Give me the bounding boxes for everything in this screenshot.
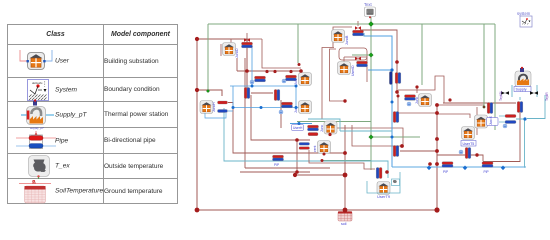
wire maroon U2 loop: [339, 48, 367, 60]
user cluster U2: [332, 26, 364, 45]
user cluster US1: [405, 94, 432, 107]
user cluster U8: [299, 141, 375, 170]
user cluster U4: [282, 73, 311, 86]
svg-text:JuX: JuX: [294, 78, 298, 85]
T_ex mini box: [392, 179, 400, 186]
label UserH: [292, 125, 304, 131]
vertical pipe x375: [376, 168, 382, 179]
wire maroon top branch: [197, 39, 247, 88]
wire maroon US1 box: [398, 76, 444, 113]
wire cyan S2 loop: [512, 85, 537, 100]
user cluster U1: [223, 38, 253, 58]
wire maroon y106 y117 to right: [437, 105, 484, 135]
wire maroon y172-175: [240, 140, 345, 175]
wire maroon U2 box: [333, 21, 358, 47]
svg-text:PIP: PIP: [274, 163, 279, 167]
wire maroon right loop: [483, 113, 520, 162]
vertical pipes center: [244, 88, 250, 99]
wire maroon center h: [251, 95, 310, 140]
svg-text:UserT5: UserT5: [463, 142, 475, 146]
wire green x371: [370, 17, 372, 170]
supply station S2: [499, 67, 549, 113]
pipe row center: [250, 76, 265, 84]
user cluster U10: [475, 115, 517, 129]
user cluster U6: [338, 57, 368, 76]
wire green x298: [297, 24, 299, 63]
wire blue pump loop: [228, 47, 305, 111]
wire green x484 x495: [484, 24, 495, 130]
wire cyan right down: [527, 95, 545, 119]
svg-text:JuncX: JuncX: [489, 115, 493, 125]
legend table: [7, 24, 178, 204]
user cluster U9: [459, 127, 479, 159]
svg-text:UserID: UserID: [351, 65, 355, 76]
wire maroon branch to U3: [197, 90, 222, 96]
wire blue y167: [392, 166, 526, 168]
pipe bottom left: [273, 155, 284, 167]
wire green y160 stub: [322, 160, 371, 162]
wire cyan y131: [340, 130, 392, 132]
wire maroon y168: [245, 167, 330, 169]
junction dots blue: [232, 68, 527, 170]
svg-text:soil: soil: [341, 222, 347, 226]
wire maroon to vpipes top right: [360, 30, 397, 92]
svg-text:JuncH: JuncH: [212, 102, 216, 112]
svg-text:TeplSL: TeplSL: [499, 91, 503, 101]
svg-text:UserH: UserH: [293, 126, 303, 130]
soil temperature: [338, 212, 352, 227]
wire cyan y119: [308, 119, 340, 131]
wire maroon tall loop: [322, 48, 345, 120]
wire maroon pipe feeder y76: [237, 71, 301, 128]
svg-text:PIP: PIP: [484, 170, 489, 174]
wire blue y123.5: [290, 123, 312, 125]
svg-text:Text: Text: [364, 2, 373, 7]
svg-text:Supply: Supply: [516, 88, 527, 92]
wire blue x392 long: [364, 33, 392, 167]
wire maroon center right block: [336, 125, 403, 146]
wire blue y70 stub: [368, 69, 392, 71]
pipe icon: [16, 130, 56, 152]
svg-text:Junc: Junc: [320, 125, 324, 132]
soil temperature icon: [17, 180, 53, 204]
user icon: [13, 48, 57, 76]
text icon: [364, 2, 376, 18]
system icon: [517, 11, 532, 27]
wire maroon y152: [228, 103, 345, 154]
junction dots green: [207, 21, 486, 139]
wire maroon U1 box: [221, 33, 301, 68]
wire maroon verticals center: [237, 58, 245, 168]
svg-text:PIP: PIP: [443, 170, 448, 174]
svg-text:system: system: [517, 11, 531, 16]
vertical pipes x396: [393, 112, 399, 123]
vertical pipe x490: [487, 103, 493, 114]
wire green y137: [297, 122, 420, 138]
svg-text:vent: vent: [313, 146, 317, 152]
vertical pipe pair right: [389, 72, 400, 85]
user cluster U3: [200, 101, 228, 119]
svg-text:UserT9: UserT9: [377, 194, 391, 199]
wire maroon y116 y151: [400, 151, 483, 161]
svg-text:JuncB: JuncB: [345, 35, 349, 45]
user cluster U7: [308, 121, 338, 136]
user cluster U11: [367, 172, 400, 199]
wire maroon main left loop: [197, 39, 437, 210]
system icon: [27, 79, 49, 101]
svg-text:TeplR: TeplR: [545, 92, 549, 101]
wire cyan left loop: [224, 108, 388, 178]
wire maroon to S2 bottom: [443, 102, 516, 104]
wire green x420: [421, 24, 423, 85]
wire maroon x345: [344, 125, 346, 210]
wire maroon U6 box: [344, 57, 367, 82]
junction dots maroon: [195, 37, 452, 213]
T_ex icon: [28, 155, 50, 179]
svg-text:JuncD: JuncD: [235, 48, 239, 58]
wire blue U10 right: [516, 119, 525, 168]
supply_pT icon: [18, 96, 58, 132]
pipes on blue line: [442, 162, 453, 174]
wire green y55 stub: [352, 54, 371, 56]
wire green main: [208, 24, 495, 91]
user cluster U5: [279, 101, 311, 114]
